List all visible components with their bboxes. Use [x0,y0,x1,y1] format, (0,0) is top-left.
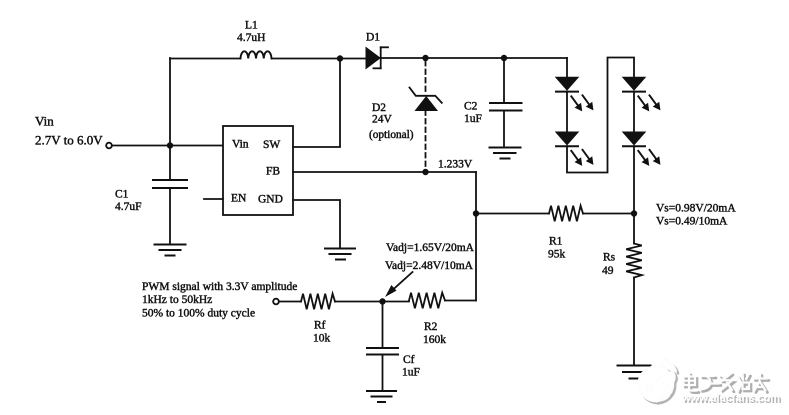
diode D1 (Schottky) [366,47,388,68]
watermark logo (elecfans) [639,359,678,404]
wire: R1 to Rs node [583,213,634,215]
LED 2 [556,132,593,165]
wire: top rail left segment [170,58,241,60]
svg-text:PWM signal with 3.3V amplitude: PWM signal with 3.3V amplitude [142,281,297,293]
capacitor C2 [490,58,522,148]
svg-text:Vin: Vin [35,114,54,129]
node: junction dot FB/D2 [422,169,428,175]
svg-text:2.7V to 6.0V: 2.7V to 6.0V [35,133,103,148]
svg-text:Vs=0.98V/20mA: Vs=0.98V/20mA [656,203,736,215]
capacitor Cf [367,302,398,391]
resistor Rs [626,244,642,278]
svg-text:Rf: Rf [314,320,326,332]
ground (C1) [155,245,186,256]
wire: feedback vertical [475,172,477,301]
inductor L1 [241,51,272,58]
node: junction dot FB/R1 [473,210,479,216]
svg-text:160k: 160k [423,334,446,346]
svg-text:Vin: Vin [232,139,249,151]
wire: top rail from L1 to D1 anode [272,58,367,60]
svg-text:24V: 24V [372,114,393,126]
svg-text:49: 49 [602,265,614,277]
svg-text:SW: SW [263,139,280,151]
wire: Rs bottom lead [633,278,635,366]
zener D2 (optional) [410,88,442,111]
svg-text:D2: D2 [372,102,386,114]
node: junction dot D2 [422,55,428,61]
watermark text 电子发烧友 [684,373,770,393]
wire: dashed lead from zener D2 to FB line [425,111,427,171]
svg-text:EN: EN [231,193,247,205]
svg-text:95k: 95k [548,249,566,261]
node: junction dot LED/R1/Rs [631,210,637,216]
arrow from Vadj labels to summing node [386,272,412,296]
wire: R1 rail from FB vertical [476,213,549,215]
node: junction dot C2 [501,55,507,61]
svg-text:Vs=0.49/10mA: Vs=0.49/10mA [656,216,728,228]
LED 4 [623,132,660,165]
ground (Cf) [367,391,396,402]
LED 3 [623,77,660,110]
svg-text:R1: R1 [549,236,563,248]
wire: LED string 2 down to Rs node [633,146,635,213]
svg-text:R2: R2 [424,321,438,333]
wire: top rail from D1 cathode to LED string 1 [381,57,567,59]
terminal: Vin input [106,143,112,149]
svg-text:1uF: 1uF [464,113,482,125]
svg-text:1.233V: 1.233V [438,159,473,171]
svg-text:L1: L1 [245,20,258,32]
wire: FB pin to feedback node [293,171,476,173]
resistor Rf [301,294,335,310]
svg-text:C2: C2 [464,101,478,113]
svg-text:1uF: 1uF [402,367,420,379]
svg-text:10k: 10k [313,333,331,345]
wire: between LED3 and LED4 [633,92,635,132]
wire: LED string1 bottom to string2 top (series link) [567,58,634,173]
op-amp U1 (regulator IC box) [223,126,293,215]
svg-text:50% to 100% duty cycle: 50% to 100% duty cycle [142,308,255,320]
svg-text:(optional): (optional) [369,129,414,141]
ground (Rs) [618,366,651,379]
wire: Rs top lead [633,214,635,244]
node: junction dot Rf/R2/Cf [379,298,385,304]
wire: R2 to feedback vertical [445,300,476,302]
svg-text:FB: FB [266,166,280,178]
watermark text www.elecfans.com [681,392,782,406]
svg-text:C1: C1 [115,189,129,201]
svg-text:4.7uH: 4.7uH [237,32,265,44]
wire: SW pin to top rail [293,59,340,148]
resistor R1 [549,206,583,222]
ground (C2) [490,148,521,159]
svg-text:Cf: Cf [403,354,415,366]
svg-text:GND: GND [258,194,283,206]
svg-text:Rs: Rs [603,252,616,264]
wire: EN stub [204,198,223,200]
wire: GND pin to ground [293,200,340,248]
svg-text:4.7uF: 4.7uF [115,201,142,213]
capacitor C1 [153,146,187,245]
svg-text:www.elecfans.com: www.elecfans.com [681,392,780,404]
terminal: PWM input [273,299,279,305]
svg-text:Vadj=1.65V/20mA: Vadj=1.65V/20mA [386,242,475,254]
node: junction dot SW/top-rail [337,55,343,61]
wire: dashed lead from top rail to zener D2 [425,61,427,93]
svg-text:Vadj=2.48V/10mA: Vadj=2.48V/10mA [385,260,474,272]
svg-text:1kHz to 50kHz: 1kHz to 50kHz [142,294,212,306]
wire: LED string 1 top lead [566,58,568,78]
LED 1 [556,77,593,110]
wire: Vin input to IC [112,145,223,147]
svg-text:D1: D1 [366,32,380,44]
wire: PWM terminal to Rf [279,301,301,303]
wire: left vertical from top rail to Vin node [169,58,171,146]
wire: Rf to summing node [335,301,409,303]
wire: between LED1 and LED2 [566,92,568,132]
ground (IC GND) [325,249,355,260]
resistor R2 [409,293,445,309]
node: junction dot Vin/C1 [167,142,173,148]
